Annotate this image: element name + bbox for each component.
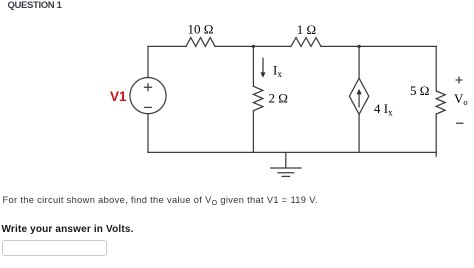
svg-text:Vo: Vo [454, 91, 468, 107]
svg-text:1 Ω: 1 Ω [297, 22, 316, 37]
wire top segment middle [215, 45, 291, 47]
question header [8, 0, 62, 11]
label Vo plus [456, 77, 463, 84]
ground stem [285, 152, 287, 168]
resistor R 2ohm zigzag [253, 86, 263, 110]
prompt line [3, 195, 318, 205]
resistor R 5ohm zigzag [436, 91, 445, 114]
resistor R 1ohm zigzag [291, 38, 321, 47]
wire right branch upper [435, 46, 437, 91]
wire stub below bottom right corner [435, 152, 437, 156]
label Vo minus [456, 122, 464, 124]
V1 minus sign [145, 106, 152, 108]
V1 plus sign [145, 84, 152, 91]
wire middle branch upper [252, 46, 254, 86]
resistor R 10ohm zigzag [186, 38, 215, 47]
svg-text:5 Ω: 5 Ω [410, 83, 429, 98]
label 2 ohm [269, 90, 288, 105]
label Vo [454, 91, 468, 107]
svg-text:10 Ω: 10 Ω [188, 22, 214, 37]
label 1 ohm [297, 22, 316, 37]
current arrow Ix [260, 58, 265, 77]
svg-text:V1: V1 [110, 89, 127, 104]
wire right branch lower [435, 114, 437, 152]
arrow inside diamond [357, 89, 362, 107]
instruction line [2, 224, 134, 235]
wire top segment left [148, 45, 186, 47]
dependent current source 4Ix diamond [349, 78, 368, 114]
junction node top-right [358, 45, 361, 48]
wire middle branch lower [252, 111, 254, 153]
label Ix [273, 63, 282, 80]
ground bar 3 [282, 175, 290, 177]
svg-text:2 Ω: 2 Ω [269, 90, 288, 105]
wire left branch lower [147, 114, 149, 153]
wire left branch upper [147, 46, 149, 77]
voltage source V1 circle [130, 78, 166, 114]
ground bar 2 [278, 172, 294, 174]
wire dependent-source branch lower [358, 114, 360, 152]
wire dependent-source branch upper [358, 46, 360, 78]
svg-text:Ix: Ix [273, 63, 282, 80]
wire bottom [148, 151, 436, 153]
label 4Ix [374, 101, 393, 118]
label 5 ohm [410, 83, 429, 98]
wire top segment right [321, 45, 436, 47]
label 10 ohm [188, 22, 214, 37]
label V1 [110, 89, 127, 104]
answer input box [2, 240, 107, 257]
svg-text:4 Ix: 4 Ix [374, 101, 393, 118]
ground bar 1 [271, 167, 301, 169]
junction node top-middle [252, 45, 255, 48]
